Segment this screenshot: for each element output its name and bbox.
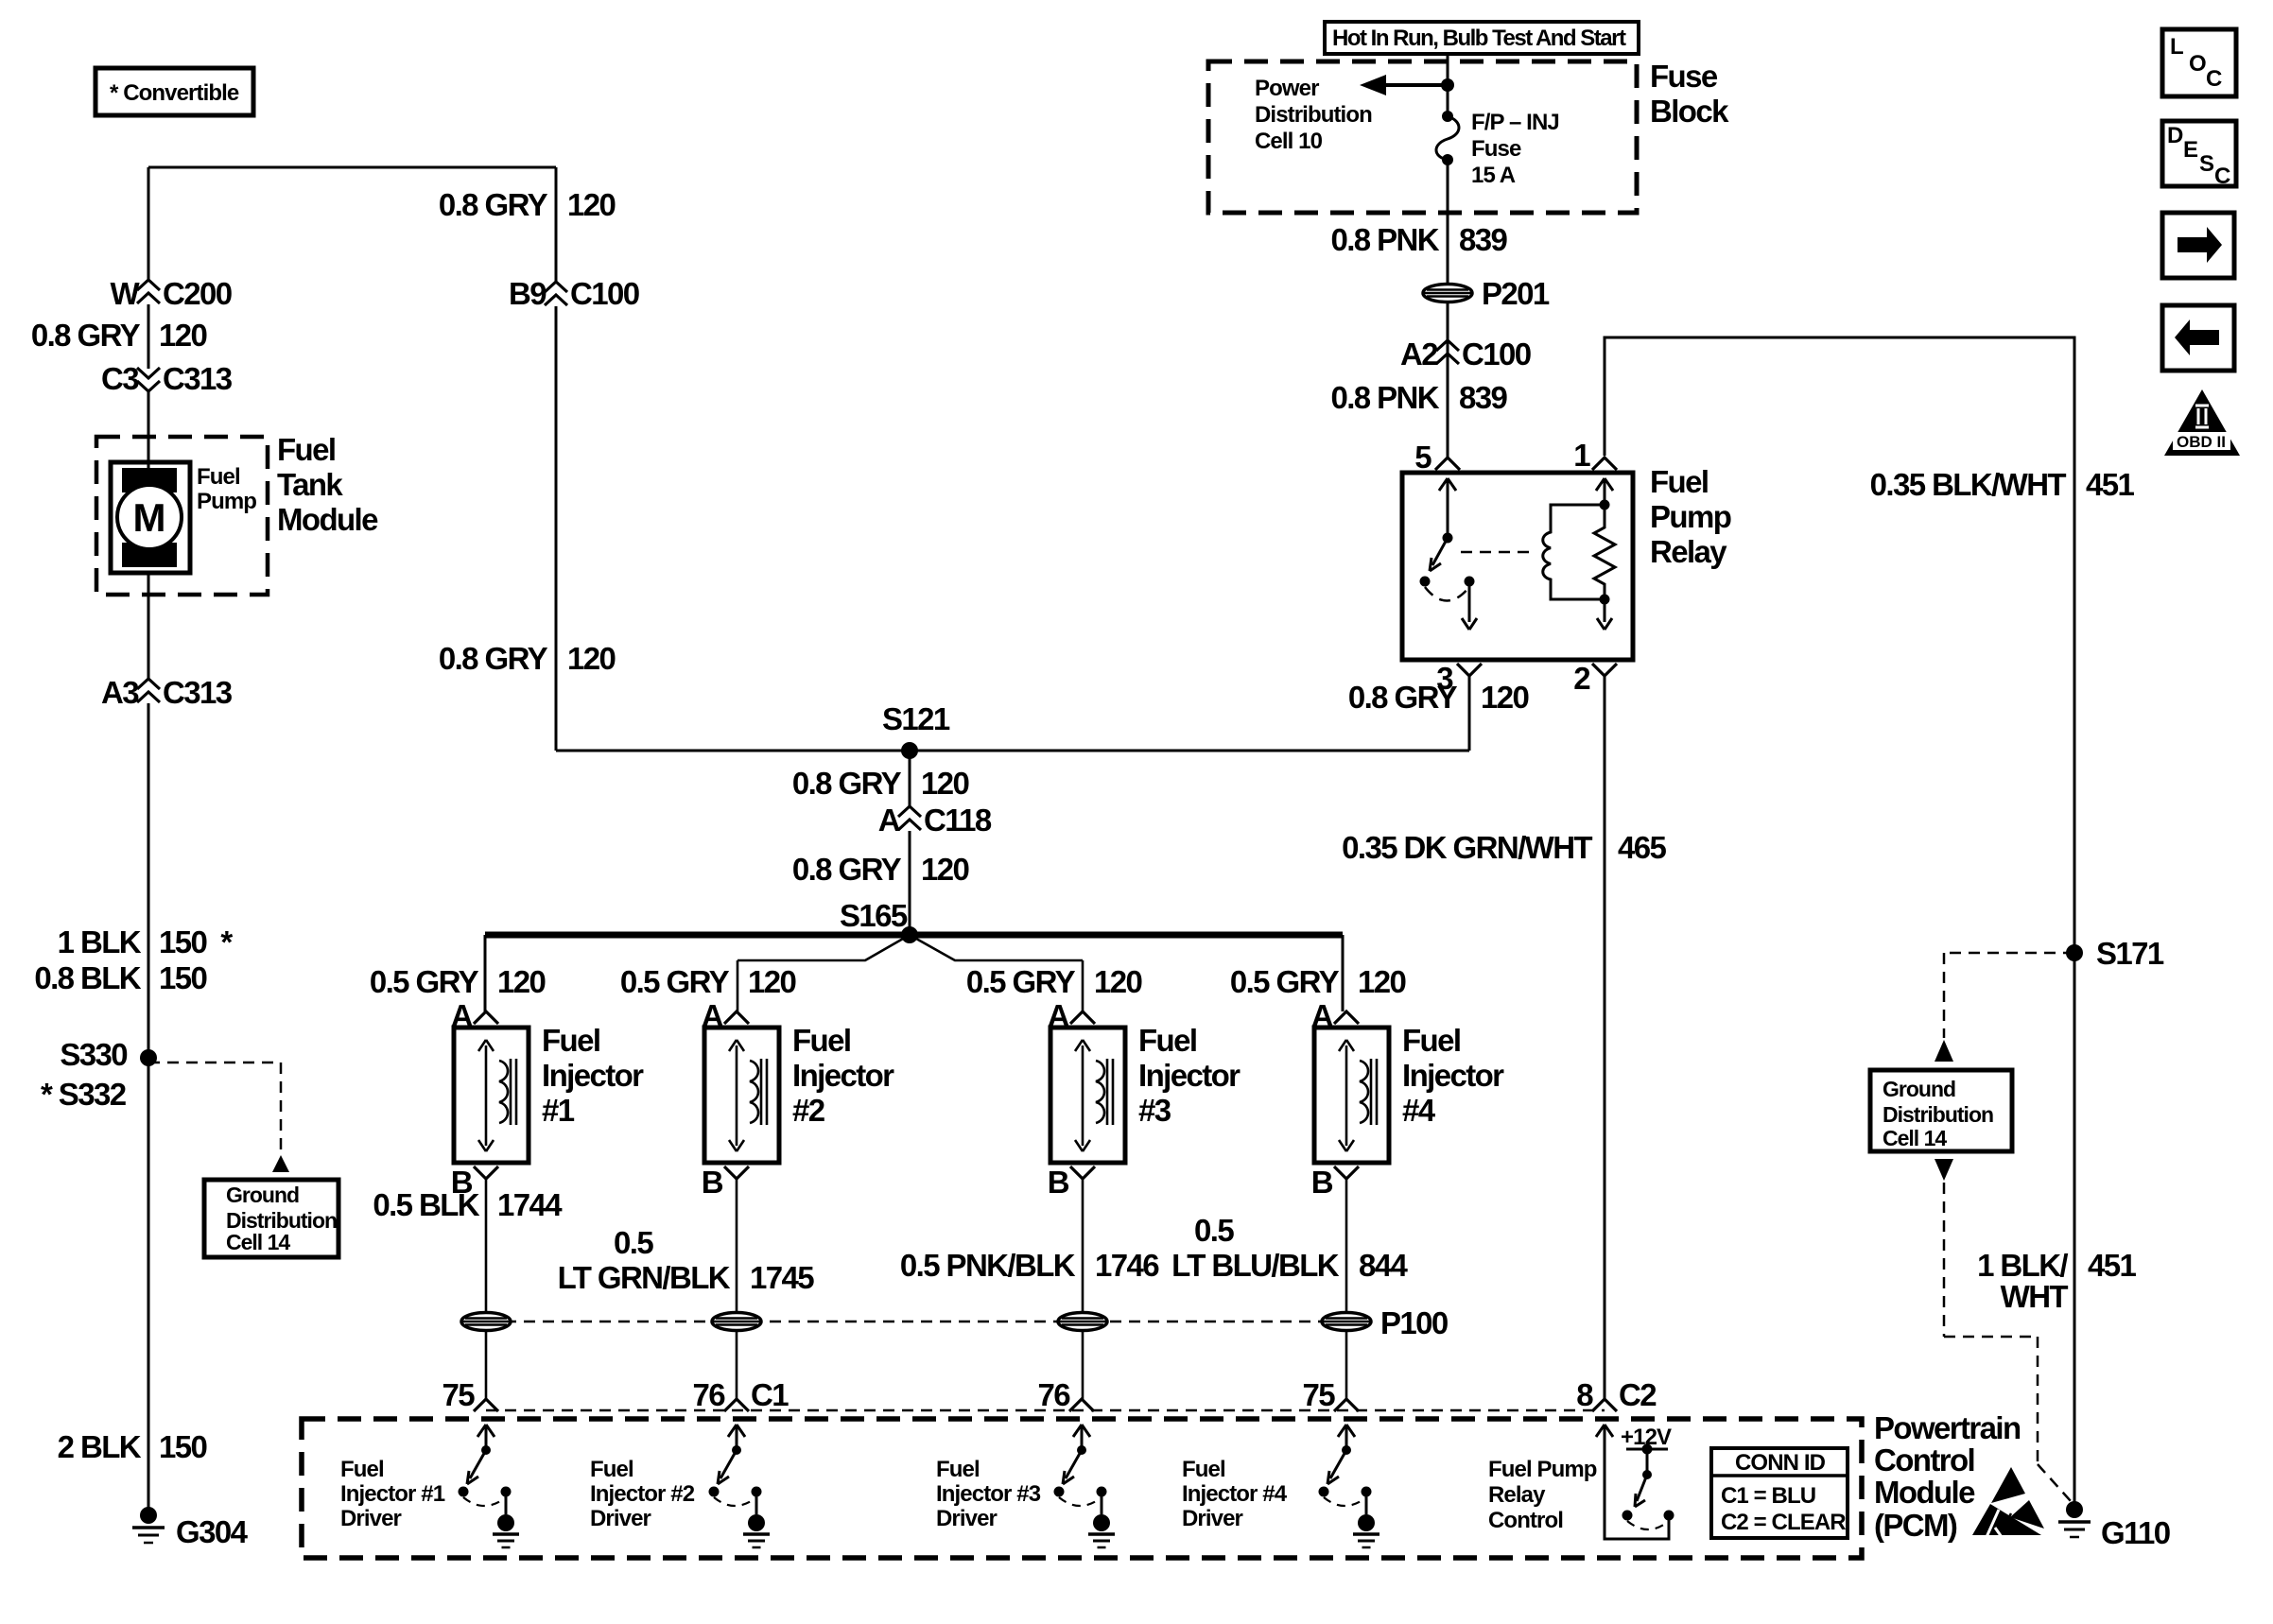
wire S165 bus left (thick) — [485, 932, 910, 939]
pin B injector 4 — [1311, 1165, 1359, 1200]
svg-text:C118: C118 — [924, 803, 992, 838]
svg-text:Cell 10: Cell 10 — [1255, 129, 1323, 154]
wire C118 to S165 — [909, 831, 911, 935]
label Fuel Injector #4 Driver — [1182, 1457, 1288, 1531]
fuel injector #3 driver switch — [1054, 1425, 1116, 1547]
svg-text:#1: #1 — [542, 1093, 575, 1128]
svg-text:76: 76 — [692, 1377, 725, 1412]
svg-text:76: 76 — [1037, 1377, 1070, 1412]
svg-text:O: O — [2189, 51, 2206, 77]
wire left vertical into fuel tank module — [147, 391, 150, 470]
svg-text:1 BLK: 1 BLK — [58, 924, 142, 959]
connector C100 (A2) — [1400, 337, 1531, 371]
svg-text:Powertrain: Powertrain — [1874, 1410, 2021, 1445]
svg-text:P201: P201 — [1482, 276, 1550, 311]
wire relay pin 2 to PCM pin 8 — [1604, 676, 1606, 1399]
svg-text:S330: S330 — [60, 1037, 127, 1072]
svg-text:Fuel: Fuel — [340, 1457, 384, 1482]
connector C313 (A3) — [101, 675, 233, 710]
wire label 0.5 LT BLU/BLK 844 — [1171, 1213, 1408, 1283]
wire fuse to P201 — [1447, 160, 1449, 367]
svg-text:Fuel: Fuel — [542, 1023, 599, 1058]
ground G304 — [132, 1507, 249, 1549]
wire label 0.8 PNK 839 (above P201) — [1330, 222, 1507, 257]
svg-text:839: 839 — [1459, 380, 1508, 415]
svg-text:Power: Power — [1255, 76, 1319, 101]
note box * Convertible — [95, 68, 253, 115]
svg-text:Injector: Injector — [1138, 1058, 1241, 1093]
fuse F/P-INJ 15A symbol — [1436, 111, 1459, 165]
dashed branch ground cell to G110 — [1935, 1159, 2071, 1501]
label Fuse Block — [1650, 59, 1729, 129]
wire injector 4 pin B down — [1345, 1179, 1348, 1311]
svg-text:C1: C1 — [751, 1377, 789, 1412]
svg-text:Fuel: Fuel — [1402, 1023, 1460, 1058]
svg-text:OBD II: OBD II — [2177, 433, 2226, 451]
svg-text:C3: C3 — [101, 361, 139, 396]
svg-text:* Convertible: * Convertible — [110, 80, 239, 106]
connector C118 (A) — [878, 803, 992, 838]
svg-text:Injector #2: Injector #2 — [590, 1481, 695, 1507]
svg-text:2 BLK: 2 BLK — [58, 1429, 142, 1464]
svg-text:G304: G304 — [176, 1514, 249, 1549]
svg-text:S171: S171 — [2096, 936, 2164, 971]
wire B9 down to S121 bus — [555, 306, 558, 751]
esd sensitive symbol — [1972, 1467, 2044, 1537]
grommet P100 at injector 1 — [461, 1313, 511, 1331]
wire injector 1 pin B down — [485, 1179, 488, 1311]
svg-text:Relay: Relay — [1650, 534, 1727, 569]
svg-text:0.5 BLK: 0.5 BLK — [373, 1187, 479, 1222]
wire below fuel pump to C313-A3 — [147, 573, 150, 681]
svg-text:5: 5 — [1414, 440, 1431, 475]
fuel pump relay control driver — [1596, 1425, 1674, 1539]
relay pin 3 — [1436, 661, 1482, 696]
svg-text:1 BLK/: 1 BLK/ — [1977, 1248, 2068, 1283]
relay actuation dashed link — [1461, 551, 1530, 554]
wire drop to injector 2 pin A — [737, 960, 739, 1011]
arrow to power distribution cell 10 — [1360, 75, 1448, 95]
relay internal pin2 lead — [1597, 595, 1612, 631]
label F/P - INJ Fuse 15 A — [1471, 110, 1559, 188]
svg-text:120: 120 — [497, 964, 546, 999]
relay switch common arm — [1420, 478, 1457, 587]
label Fuel Injector #4 — [1402, 1023, 1504, 1128]
pcm connector gang line — [486, 1409, 1605, 1412]
svg-text:W: W — [110, 276, 140, 311]
fuel tank module dashed box — [96, 437, 268, 595]
svg-text:S121: S121 — [882, 701, 950, 736]
svg-text:0.5 GRY: 0.5 GRY — [370, 964, 479, 999]
svg-text:451: 451 — [2086, 467, 2135, 502]
svg-text:1746: 1746 — [1095, 1248, 1159, 1283]
svg-text:465: 465 — [1618, 830, 1667, 865]
svg-text:844: 844 — [1359, 1248, 1409, 1283]
dashed branch S330 to ground cell — [148, 1063, 289, 1172]
fuel injector #1 box — [454, 1028, 529, 1163]
wire B9 vertical above C100 — [555, 167, 558, 284]
svg-text:Module: Module — [1874, 1475, 1975, 1510]
connector C313 (C3) — [101, 361, 233, 396]
svg-text:0.8 GRY: 0.8 GRY — [439, 641, 548, 676]
svg-text:C100: C100 — [1462, 337, 1531, 371]
svg-text:75: 75 — [1302, 1377, 1335, 1412]
wire A3 down to S330 — [147, 703, 150, 1058]
svg-text:Hot In Run, Bulb Test And Star: Hot In Run, Bulb Test And Start — [1332, 26, 1626, 51]
wire label 0.5 LT GRN/BLK 1745 — [558, 1225, 815, 1295]
grommet P100 at injector 4 — [1322, 1313, 1371, 1331]
fuel pump relay box — [1402, 473, 1633, 660]
svg-text:Injector: Injector — [1402, 1058, 1504, 1093]
wire label 0.8 PNK 839 (below C100) — [1330, 380, 1507, 415]
pcm pin 75 — [1302, 1377, 1359, 1412]
relay switch throw contact — [1425, 577, 1477, 631]
svg-text:Injector #1: Injector #1 — [340, 1481, 445, 1507]
wire label 0.5 GRY 120 (injector 3) — [966, 964, 1142, 999]
svg-text:B: B — [702, 1165, 723, 1200]
svg-text:WHT: WHT — [2001, 1279, 2069, 1314]
svg-text:P100: P100 — [1380, 1305, 1448, 1340]
wire injector 3 below P100 — [1082, 1332, 1084, 1399]
svg-text:120: 120 — [567, 187, 616, 222]
svg-text:15 A: 15 A — [1471, 163, 1516, 188]
connector C100 (B9) — [509, 276, 639, 311]
dashed branch S171 to ground cell — [1935, 953, 2074, 1062]
svg-text:0.8 GRY: 0.8 GRY — [792, 766, 902, 801]
svg-text:Fuse: Fuse — [1471, 136, 1521, 162]
fuel injector #4 driver switch — [1319, 1425, 1380, 1547]
svg-text:G110: G110 — [2101, 1515, 2170, 1550]
svg-text:Injector: Injector — [542, 1058, 644, 1093]
grommet P100 at injector 3 — [1058, 1313, 1107, 1331]
wire C100 to relay pin 5 — [1447, 365, 1449, 458]
svg-text:Tank: Tank — [277, 467, 343, 502]
relay coil suppression resistor — [1594, 505, 1615, 599]
wire label 0.8 GRY 120 (above S121 bus left) — [439, 641, 616, 676]
wire drop to injector 4 pin A — [1342, 935, 1345, 1011]
svg-text:C: C — [2214, 164, 2230, 189]
svg-text:#2: #2 — [792, 1093, 825, 1128]
svg-text:S: S — [2199, 151, 2214, 177]
icon DESC — [2162, 121, 2236, 189]
fuel injector #1 driver switch — [459, 1425, 520, 1547]
pin B injector 2 — [702, 1165, 749, 1200]
relay internal pin1 lead — [1596, 478, 1613, 510]
wire injector 3 pin B down — [1082, 1179, 1084, 1311]
wire S165 bus right (thick) — [910, 932, 1343, 939]
splice S121 — [882, 701, 950, 759]
svg-text:C2: C2 — [1619, 1377, 1657, 1412]
wire S330 down to G304 — [147, 1058, 150, 1512]
ground distribution cell 14 box (right) — [1870, 1070, 2012, 1151]
wire label 0.8 GRY 120 (left) — [31, 318, 207, 353]
svg-text:B: B — [1311, 1165, 1333, 1200]
svg-text:C313: C313 — [163, 675, 233, 710]
pin A injector 2 — [702, 998, 749, 1033]
grommet P100 at injector 2 — [712, 1313, 761, 1331]
svg-text:Driver: Driver — [590, 1506, 651, 1531]
svg-text:Distribution: Distribution — [1255, 102, 1372, 128]
svg-text:451: 451 — [2088, 1248, 2137, 1283]
wire S165 diagonal to injector 3 — [910, 935, 1083, 960]
fuel injector #2 box — [704, 1028, 779, 1163]
svg-text:0.8 BLK: 0.8 BLK — [34, 960, 141, 995]
svg-text:Fuel: Fuel — [1182, 1457, 1225, 1482]
pcm pin 76 C1 — [692, 1377, 789, 1412]
svg-text:Fuel: Fuel — [277, 432, 335, 467]
conn id table — [1711, 1448, 1848, 1538]
svg-text:A2: A2 — [1400, 337, 1438, 371]
label Fuel Injector #1 — [542, 1023, 644, 1128]
svg-text:C: C — [2206, 66, 2222, 92]
ground G110 — [2058, 1501, 2170, 1550]
svg-text:120: 120 — [921, 766, 969, 801]
pin B injector 1 — [451, 1165, 498, 1200]
svg-text:0.8 PNK: 0.8 PNK — [1330, 380, 1439, 415]
svg-text:1744: 1744 — [497, 1187, 563, 1222]
svg-text:M: M — [133, 495, 166, 540]
wire injector 1 below P100 — [485, 1332, 488, 1399]
wire label 0.5 GRY 120 (injector 2) — [620, 964, 796, 999]
label Fuel Injector #3 Driver — [936, 1457, 1041, 1531]
svg-text:L: L — [2170, 34, 2183, 60]
pin A injector 1 — [451, 998, 498, 1033]
svg-text:#4: #4 — [1402, 1093, 1436, 1128]
svg-text:1: 1 — [1573, 438, 1590, 473]
svg-text:Fuel: Fuel — [792, 1023, 850, 1058]
svg-text:Ground: Ground — [1883, 1077, 1955, 1101]
svg-text:150: 150 — [159, 1429, 207, 1464]
svg-text:Fuel: Fuel — [1138, 1023, 1196, 1058]
svg-text:120: 120 — [1358, 964, 1406, 999]
svg-text:Relay: Relay — [1488, 1482, 1546, 1508]
svg-text:E: E — [2183, 137, 2198, 163]
pcm pin 75 — [442, 1377, 498, 1412]
label Fuel Pump Relay — [1650, 464, 1731, 569]
fuel injector #4 box — [1314, 1028, 1389, 1163]
svg-text:120: 120 — [1481, 680, 1529, 715]
svg-text:0.5 GRY: 0.5 GRY — [966, 964, 1076, 999]
relay pin 5 — [1414, 440, 1460, 475]
fuel pump motor M — [111, 462, 190, 573]
wire left vertical C200 to C313 — [147, 304, 150, 369]
label Fuel Injector #3 — [1138, 1023, 1241, 1128]
svg-text:1745: 1745 — [750, 1260, 814, 1295]
label Powertrain Control Module (PCM) — [1874, 1410, 2021, 1543]
wire drop to injector 3 pin A — [1082, 960, 1084, 1011]
label Fuel Injector #2 — [792, 1023, 894, 1128]
svg-text:0.35 BLK/WHT: 0.35 BLK/WHT — [1870, 467, 2067, 502]
connector P100 dashed gang line — [486, 1321, 1346, 1323]
wire label 0.8 GRY 120 (pin 3) — [1348, 680, 1529, 715]
wire S165 diagonal to injector 2 — [737, 935, 910, 960]
svg-text:A3: A3 — [101, 675, 139, 710]
svg-text:0.5 GRY: 0.5 GRY — [620, 964, 730, 999]
svg-text:Ground: Ground — [226, 1183, 299, 1207]
svg-text:C2 = CLEAR: C2 = CLEAR — [1721, 1510, 1846, 1535]
label Fuel Tank Module — [277, 432, 378, 537]
label P100 — [1380, 1305, 1448, 1340]
svg-text:120: 120 — [567, 641, 616, 676]
svg-text:Control: Control — [1874, 1443, 1974, 1477]
icon OBD II triangle — [2164, 389, 2240, 456]
svg-text:Control: Control — [1488, 1508, 1563, 1533]
svg-text:Fuel Pump: Fuel Pump — [1488, 1457, 1597, 1482]
pcm pin 76 — [1037, 1377, 1094, 1412]
wire relay pin 3 to S121 bus — [1468, 676, 1469, 751]
wire label 0.35 DK GRN/WHT 465 — [1342, 830, 1666, 865]
svg-text:S165: S165 — [840, 898, 908, 933]
wire top horizontal from fuel-pump feed to B9 branch — [148, 166, 556, 169]
svg-text:B: B — [1048, 1165, 1069, 1200]
wire label 0.8 GRY 120 (C118-S165) — [792, 852, 969, 887]
label Fuel Pump Relay Control — [1488, 1457, 1597, 1533]
svg-text:150: 150 — [159, 960, 207, 995]
wire S121 horizontal bus — [556, 750, 1468, 752]
splice S171 — [2066, 936, 2164, 971]
svg-text:Pump: Pump — [1650, 499, 1731, 534]
icon arrow left — [2162, 305, 2234, 371]
powertrain control module dashed box — [302, 1419, 1862, 1558]
wire label 0.8 BLK 150 — [34, 960, 206, 995]
svg-text:C313: C313 — [163, 361, 233, 396]
pin A injector 3 — [1048, 998, 1095, 1033]
wire label 0.8 GRY 120 (B9) — [439, 187, 616, 222]
wire injector 4 below P100 — [1345, 1332, 1348, 1399]
fuel injector #2 driver switch — [709, 1425, 771, 1547]
svg-text:0.8 PNK: 0.8 PNK — [1330, 222, 1439, 257]
svg-text:C1 = BLU: C1 = BLU — [1721, 1483, 1815, 1509]
svg-text:Fuel: Fuel — [936, 1457, 980, 1482]
svg-text:Driver: Driver — [340, 1506, 402, 1531]
svg-text:Block: Block — [1650, 94, 1729, 129]
relay coil — [1543, 505, 1605, 599]
icon arrow right — [2162, 213, 2234, 278]
svg-text:Driver: Driver — [1182, 1506, 1243, 1531]
svg-text:Driver: Driver — [936, 1506, 998, 1531]
wire label 2 BLK 150 — [58, 1429, 207, 1464]
svg-text:Injector #4: Injector #4 — [1182, 1481, 1288, 1507]
svg-text:0.5: 0.5 — [1194, 1213, 1234, 1248]
wire into fuse block — [1447, 54, 1449, 116]
svg-text:* S332: * S332 — [41, 1077, 127, 1112]
svg-text:8: 8 — [1576, 1377, 1593, 1412]
wire label 0.5 PNK/BLK 1746 — [900, 1248, 1159, 1283]
svg-text:LT BLU/BLK: LT BLU/BLK — [1171, 1248, 1340, 1283]
ground distribution cell 14 box (left) — [204, 1180, 338, 1257]
svg-text:75: 75 — [442, 1377, 475, 1412]
svg-text:#3: #3 — [1138, 1093, 1171, 1128]
relay pin 1 — [1573, 438, 1617, 473]
wire label 0.35 BLK/WHT 451 — [1870, 467, 2135, 502]
svg-text:0.8 GRY: 0.8 GRY — [439, 187, 548, 222]
svg-text:Fuel: Fuel — [590, 1457, 633, 1482]
svg-text:D: D — [2167, 123, 2183, 148]
pin A injector 4 — [1311, 998, 1359, 1033]
label Power Distribution Cell 10 — [1255, 76, 1372, 154]
svg-text:0.8 GRY: 0.8 GRY — [1348, 680, 1458, 715]
header box Hot In Run, Bulb Test And Start — [1325, 22, 1639, 54]
wire injector 2 below P100 — [736, 1332, 738, 1399]
fuse block dashed box — [1208, 61, 1637, 213]
splice S165 — [840, 898, 918, 943]
wire label 1 BLK/WHT 451 — [1977, 1248, 2136, 1314]
label Fuel Injector #2 Driver — [590, 1457, 695, 1531]
svg-text:839: 839 — [1459, 222, 1508, 257]
svg-text:Fuse: Fuse — [1650, 59, 1718, 94]
wire S121 to C118 — [909, 751, 911, 808]
junction dot at power distribution tap — [1441, 78, 1454, 92]
svg-text:0.5 PNK/BLK: 0.5 PNK/BLK — [900, 1248, 1076, 1283]
label Fuel Pump (inside module) — [197, 464, 256, 514]
pin B injector 3 — [1048, 1165, 1095, 1200]
svg-text:C100: C100 — [570, 276, 639, 311]
svg-text:150 *: 150 * — [159, 924, 233, 959]
connector C200 (W) — [110, 276, 231, 311]
splice S330 — [60, 1037, 157, 1072]
fuel injector #3 box — [1050, 1028, 1125, 1163]
wire label 0.8 GRY 120 (S121-C118) — [792, 766, 969, 801]
wire label 0.5 GRY 120 (injector 4) — [1230, 964, 1406, 999]
svg-text:LT GRN/BLK: LT GRN/BLK — [558, 1260, 731, 1295]
svg-text:0.8 GRY: 0.8 GRY — [31, 318, 141, 353]
svg-text:B9: B9 — [509, 276, 547, 311]
svg-text:120: 120 — [1094, 964, 1142, 999]
pcm pin 8 C2 — [1576, 1377, 1657, 1412]
svg-text:(PCM): (PCM) — [1874, 1508, 1957, 1543]
svg-text:C200: C200 — [163, 276, 232, 311]
svg-text:0.5: 0.5 — [614, 1225, 653, 1260]
svg-text:120: 120 — [748, 964, 796, 999]
svg-text:2: 2 — [1573, 661, 1590, 696]
label * S332 — [41, 1077, 127, 1112]
svg-text:0.8 GRY: 0.8 GRY — [792, 852, 902, 887]
svg-text:Injector: Injector — [792, 1058, 894, 1093]
grommet P201 — [1423, 276, 1550, 311]
wire label 1 BLK 150 * — [58, 924, 234, 959]
svg-text:120: 120 — [921, 852, 969, 887]
wire drop to injector 1 pin A — [484, 935, 487, 1011]
svg-text:Fuel: Fuel — [1650, 464, 1708, 499]
svg-text:0.5 GRY: 0.5 GRY — [1230, 964, 1340, 999]
svg-text:0.35 DK GRN/WHT: 0.35 DK GRN/WHT — [1342, 830, 1592, 865]
wire label 0.5 BLK 1744 — [373, 1187, 563, 1222]
relay pin 2 — [1573, 661, 1617, 696]
icon LOC — [2162, 29, 2236, 96]
svg-text:Cell 14: Cell 14 — [226, 1230, 290, 1254]
svg-text:120: 120 — [159, 318, 207, 353]
svg-text:Cell 14: Cell 14 — [1883, 1126, 1947, 1150]
wire left vertical above C200 — [147, 167, 150, 282]
label Fuel Injector #1 Driver — [340, 1457, 445, 1531]
svg-text:CONN ID: CONN ID — [1735, 1450, 1826, 1476]
svg-text:Fuel: Fuel — [197, 464, 240, 490]
svg-text:Pump: Pump — [197, 489, 256, 514]
svg-text:F/P – INJ: F/P – INJ — [1471, 110, 1559, 135]
svg-text:Injector #3: Injector #3 — [936, 1481, 1041, 1507]
svg-text:A: A — [878, 803, 900, 838]
wire label 0.5 GRY 120 (injector 1) — [370, 964, 546, 999]
svg-text:Distribution: Distribution — [1883, 1102, 1993, 1127]
svg-text:Module: Module — [277, 502, 378, 537]
wire injector 2 pin B down — [736, 1179, 738, 1311]
wire relay pin 1 up and over — [1605, 337, 2074, 1507]
